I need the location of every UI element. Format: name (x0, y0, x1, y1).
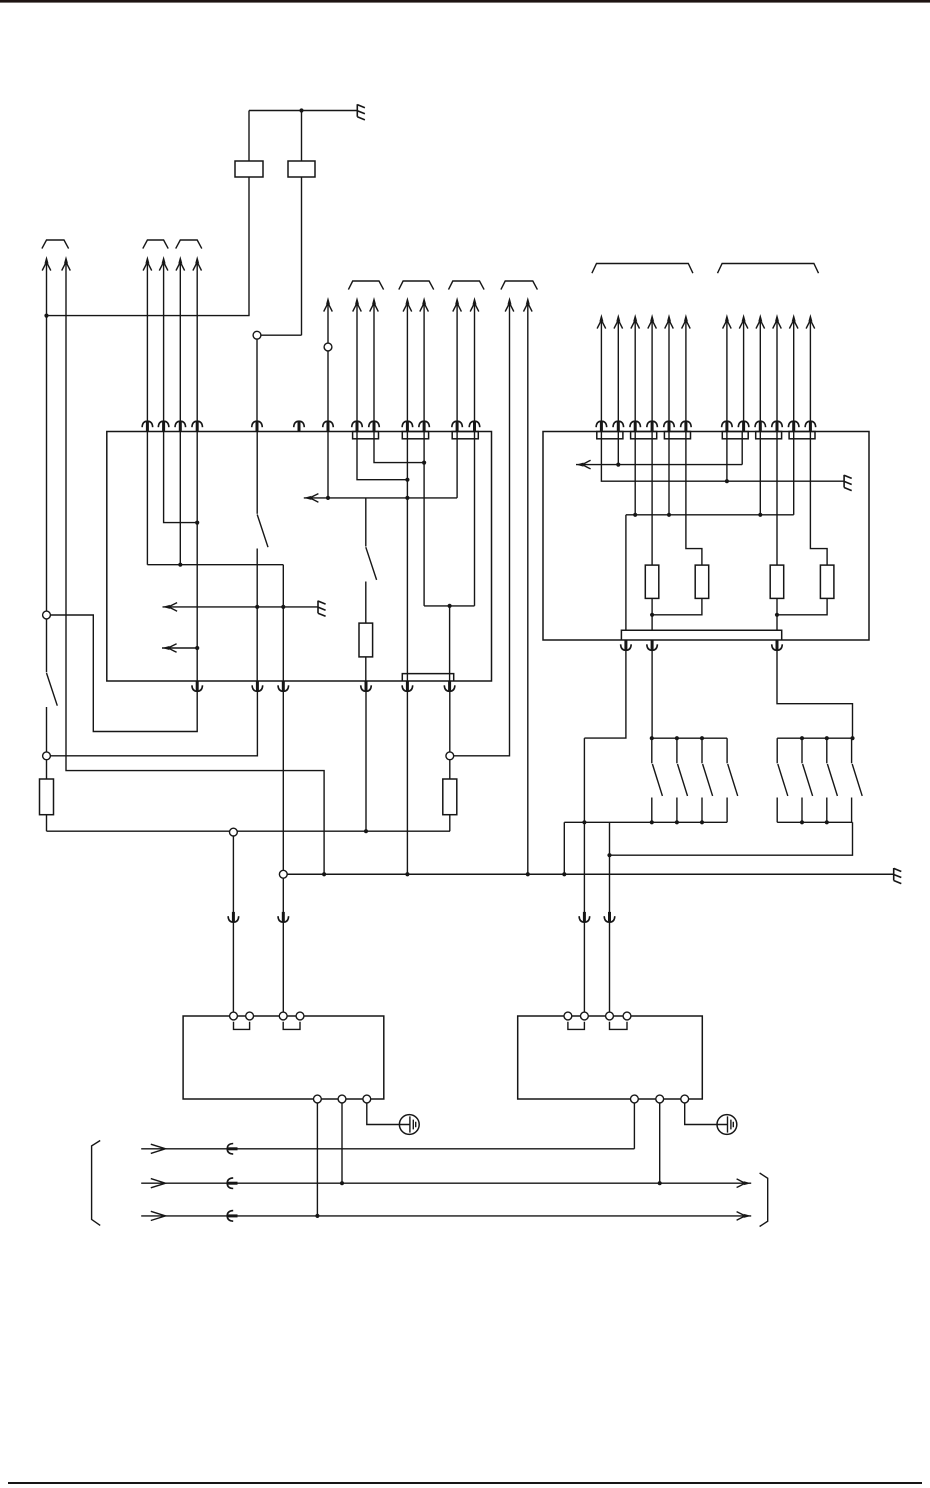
junction dot (255, 605, 259, 609)
pin (444, 681, 455, 691)
junction dot (850, 736, 854, 740)
arrowhead R3 (631, 314, 640, 329)
arrow wire 1 (to switch column) (46, 262, 48, 611)
junction dot (650, 736, 654, 740)
arrow wire R8 (743, 320, 745, 432)
signal arrow line 3 (304, 497, 457, 499)
terminal circle (581, 1012, 589, 1020)
contact 1a lower stub (651, 798, 653, 823)
wire v424 (423, 432, 425, 606)
terminal circle (296, 1012, 304, 1020)
resistor R1 (645, 565, 659, 598)
wire circle to L2 (341, 1103, 343, 1183)
junction dot (758, 513, 762, 517)
relay group 1 bottom bus (564, 821, 727, 823)
junction dot (448, 604, 452, 608)
resistor R2 (695, 565, 709, 598)
pin (647, 640, 658, 650)
arrowhead left (162, 644, 177, 653)
connector housing CN-J (789, 432, 815, 439)
contact 2a stub (776, 738, 778, 763)
contact 2c lower stub (826, 798, 828, 823)
terminal circle (623, 1012, 631, 1020)
pin (738, 421, 749, 431)
junction dot (667, 513, 671, 517)
connector circle K7 (279, 870, 287, 878)
wire v283 to K7 (282, 681, 284, 870)
arrowhead 10 (403, 297, 412, 312)
wire v163 (164, 432, 198, 523)
inline connector pin (278, 912, 289, 922)
link clip (283, 1022, 300, 1030)
contact 2b blade (803, 764, 813, 796)
arrowhead right on L1 (151, 1144, 166, 1153)
arrow wire 11 (423, 303, 425, 432)
junction dot (405, 872, 409, 876)
pin (613, 421, 624, 431)
junction dot (178, 563, 182, 567)
wire v635 (634, 432, 636, 515)
contact 2b stub (801, 738, 803, 763)
wire circle to L2 right (659, 1103, 661, 1183)
junction dot (562, 872, 566, 876)
pin (192, 421, 203, 431)
junction dot (195, 646, 199, 650)
wire F2 bottom lead (301, 177, 303, 335)
connector circle K1 (253, 331, 261, 339)
arrowhead 1 (42, 256, 51, 271)
wire v760 (759, 432, 761, 515)
junction dot (322, 872, 326, 876)
arrow wire 12 (456, 303, 458, 432)
junction dot (675, 736, 679, 740)
bus h514.8 (626, 514, 794, 516)
fuse F2 (288, 161, 315, 177)
junction dot (616, 463, 620, 467)
junction dot (405, 496, 409, 500)
harness bracket over arrows 3-4 (143, 240, 168, 249)
junction dot (340, 1181, 344, 1185)
arrowhead R6 (682, 314, 691, 329)
wire group 2 drain (610, 822, 853, 855)
pin (369, 421, 380, 431)
resistor R4 (820, 565, 834, 598)
arrowhead 8 (353, 297, 362, 312)
pin (278, 681, 289, 691)
connector housing CN-I (756, 432, 782, 439)
contact 1a stub (651, 738, 653, 763)
inline connector pin (228, 912, 239, 922)
wire K4 to fuse F3 (46, 760, 48, 779)
arrow wire R1 (600, 320, 602, 432)
pin (bottom edge) (621, 640, 632, 650)
field wiring bracket right (760, 1173, 768, 1227)
wire circle to L3 (316, 1103, 318, 1216)
junction dot (700, 820, 704, 824)
wire K6 down to compressor connector (232, 836, 234, 1012)
contact 2b lower stub (801, 798, 803, 823)
terminal circle (bottom) (631, 1095, 639, 1103)
arrow wire R11 (793, 320, 795, 432)
control box U1 outline (107, 432, 492, 682)
arrowhead 15 (524, 297, 533, 312)
contact 1c stub (701, 738, 703, 763)
terminal circle (656, 1095, 664, 1103)
harness bracket over arrows 14-15 (501, 281, 538, 290)
junction dot (700, 736, 704, 740)
terminal circle (681, 1095, 689, 1103)
contact 1a blade (652, 764, 662, 796)
harness bracket right group 1 (592, 264, 693, 274)
link clip (610, 1022, 628, 1030)
arrowhead 7 (324, 297, 333, 312)
arrow wire 5 (179, 262, 181, 432)
inline connector on L3 (227, 1211, 237, 1222)
arrowhead 6 (193, 256, 202, 271)
pin (596, 421, 607, 431)
junction dot (607, 853, 611, 857)
pin (664, 421, 675, 431)
phase line L3 (141, 1215, 751, 1217)
wire h564.7 (147, 564, 283, 566)
wire v609.5 long drop (609, 822, 611, 1012)
contact 1d stub (726, 738, 728, 763)
arrowhead left (163, 603, 178, 612)
wire v357 (357, 432, 407, 480)
pin (top edge) (142, 421, 153, 431)
arrow wire R2 (617, 320, 619, 432)
wire K3 tap right and down (50, 615, 197, 732)
junction dot (44, 314, 48, 318)
contact 1d lower stub (726, 798, 728, 823)
terminal strip TB1 (621, 630, 781, 640)
power box U2 outline (543, 432, 869, 641)
resistor R5 (359, 623, 373, 657)
arrow wire 14 (to connector K5) (454, 303, 510, 756)
terminal circle (279, 1012, 287, 1020)
harness bracket over arrows 5-6 (176, 240, 202, 249)
arrowhead R4 (648, 314, 657, 329)
connector circle K4 (43, 752, 51, 760)
wire feed to relay group 2 (777, 640, 853, 738)
arrowhead R11 (789, 314, 798, 329)
wire horizontal y=315.6 (47, 315, 250, 317)
arrowhead R5 (665, 314, 674, 329)
wire circle to L1 (633, 1103, 635, 1149)
junction dot (775, 613, 779, 617)
junction dot (675, 820, 679, 824)
connector housing CN-F (631, 432, 657, 439)
arrowhead 9 (370, 297, 379, 312)
junction dot (364, 829, 368, 833)
relay group 2 bottom bus (777, 821, 852, 823)
terminal circle (338, 1095, 346, 1103)
switch SW3 upper wire (365, 498, 367, 547)
switch SW1 lower wire (46, 707, 48, 752)
switch SW2 lower wire (256, 549, 258, 682)
wire K1 down to CN pin (256, 339, 258, 431)
wire bus drop v625.9 (625, 515, 627, 631)
inline connector pin (604, 912, 615, 922)
pin (681, 421, 692, 431)
junction dot (825, 736, 829, 740)
arrow wire 15 (to earth bus) (527, 303, 529, 874)
arrow wire 3 (146, 262, 148, 432)
arrow wire R4 (651, 320, 653, 432)
arrow wire R10 (776, 320, 778, 432)
junction dot (650, 820, 654, 824)
wire v366 (365, 681, 367, 831)
arrow wire R7 (726, 320, 728, 432)
arrowhead 5 (176, 256, 185, 271)
pin (402, 681, 413, 691)
junction dot (526, 872, 530, 876)
arrow wire 2 (long drop) (66, 262, 324, 874)
contact 1c blade (703, 764, 713, 796)
harness bracket over arrows 12-13 (449, 281, 485, 290)
pin (722, 421, 733, 431)
compressor box M2 outline (518, 1016, 703, 1099)
wire F2 top lead (301, 111, 303, 162)
arrowhead R1 (597, 314, 606, 329)
arrowhead R2 (614, 314, 623, 329)
junction dot (195, 521, 199, 525)
junction dot (299, 108, 303, 112)
fuse F4 (443, 779, 457, 815)
connector housing CN-G (664, 432, 690, 439)
wire R4 bottom lead (777, 598, 827, 614)
pin (352, 421, 363, 431)
wire top horizontal to ground (249, 110, 357, 112)
arrow wire R3 (634, 320, 636, 432)
pin (402, 421, 413, 431)
fuse F1 (235, 161, 263, 177)
connector circle K6 (230, 828, 238, 836)
wire v374 (374, 432, 424, 463)
harness bracket over arrows 1-2 (42, 240, 69, 249)
contact 1c lower stub (701, 798, 703, 823)
arrowhead R8 (739, 314, 748, 329)
junction dot (582, 820, 586, 824)
wire h831 (47, 830, 451, 832)
arrow wire R12 (809, 320, 811, 432)
wire v564.3 to earth bus (563, 822, 565, 874)
arrow wire 6 (196, 262, 198, 432)
contact 1b lower stub (676, 798, 678, 823)
arrowhead 4 (159, 256, 168, 271)
inline connector pin (579, 912, 590, 922)
pin (469, 421, 480, 431)
terminal circle (230, 1012, 238, 1020)
wire K5 to fuse F4 (449, 760, 451, 779)
arrow wire 13 (474, 303, 476, 432)
wire horizontal y=335.2 (261, 334, 302, 336)
arrowhead R12 (806, 314, 815, 329)
pin (252, 421, 263, 431)
wire F1 top lead (248, 111, 250, 162)
junction dot (326, 496, 330, 500)
arrowhead R7 (723, 314, 732, 329)
pin (805, 421, 816, 431)
connector housing CN-D (bottom) (402, 674, 453, 681)
pin (772, 421, 783, 431)
wire v328 (327, 432, 329, 498)
junction dot (633, 513, 637, 517)
arrowhead R9 (756, 314, 765, 329)
wire v474 (474, 432, 476, 606)
wire R3 bottom lead (776, 598, 778, 630)
harness bracket over arrows 10-11 (399, 281, 434, 290)
wire v283 (282, 565, 284, 681)
wire v457 (456, 432, 458, 498)
wire pin to K5 (449, 681, 451, 752)
relay group 1 top bus (652, 737, 727, 739)
page bottom rule (8, 1482, 922, 1484)
wire v197 (196, 432, 198, 682)
wire R1 bottom lead (651, 598, 653, 630)
arrowhead right on L2 (151, 1179, 166, 1188)
switch SW1 upper wire (46, 619, 48, 672)
contact 1b stub (676, 738, 678, 763)
arrowhead at L3 right end (737, 1212, 752, 1221)
arrowhead 11 (420, 297, 429, 312)
link clip (568, 1022, 585, 1030)
arrowhead 2 (62, 256, 71, 271)
contact 2d lower stub (851, 798, 853, 823)
junction dot (650, 613, 654, 617)
contact 2c stub (826, 738, 828, 763)
contact 2a lower stub (776, 798, 778, 823)
wire v407 below box (406, 681, 408, 874)
chassis ground G2 (318, 601, 326, 617)
wire F1 bottom lead (248, 177, 250, 316)
junction dot (658, 1181, 662, 1185)
switch SW2 upper wire (256, 432, 258, 514)
contact 1d blade (728, 764, 738, 796)
arrowhead 14 (505, 297, 514, 312)
wire F3 bottom lead (46, 815, 48, 832)
phase line L2 (141, 1182, 751, 1184)
pin (755, 421, 766, 431)
pin (647, 421, 658, 431)
wire h605.9 (424, 605, 474, 607)
pin (772, 640, 783, 650)
arrow wire R6 (685, 320, 687, 432)
wire v180 (179, 432, 181, 565)
wire R2 bottom lead (652, 598, 702, 614)
wire to PE2 (685, 1103, 717, 1125)
inline connector on L2 (227, 1178, 237, 1189)
protective earth PE2 (717, 1115, 737, 1135)
wire R5 bottom lead (365, 657, 367, 681)
signal arrow line 2 (162, 647, 197, 649)
switch SW3 lower wire (365, 582, 367, 624)
chassis ground G1 (357, 104, 365, 120)
harness bracket over arrows 8-9 (348, 281, 383, 290)
wire v449 (449, 606, 451, 681)
chassis ground G4 (894, 868, 902, 884)
junction dot (405, 478, 409, 482)
contact 2d stub (851, 738, 853, 763)
wire to PE1 (367, 1103, 400, 1125)
wire v147 (146, 432, 148, 565)
contact 2c blade (827, 764, 837, 796)
connector housing CN-A (353, 432, 379, 439)
pin (361, 681, 372, 691)
pin (bottom edge) (192, 681, 203, 691)
arrowhead 13 (470, 297, 479, 312)
pin (630, 421, 641, 431)
junction dot (825, 820, 829, 824)
harness bracket right group 2 (718, 264, 819, 274)
terminal circle (564, 1012, 572, 1020)
pin (175, 421, 186, 431)
arrow wire 4 (163, 262, 165, 432)
connector housing CN-H (722, 432, 748, 439)
pin (419, 421, 430, 431)
arrowhead at L2 right end (737, 1179, 752, 1188)
wire v584.4 long drop (583, 738, 585, 1012)
wire v669 (668, 432, 670, 515)
switch SW1 blade (47, 673, 58, 706)
connector circle K2 (324, 343, 332, 351)
junction dot (800, 820, 804, 824)
pin (252, 681, 263, 691)
relay group 2 top bus (777, 737, 852, 739)
connector circle K5 (446, 752, 454, 760)
page top border bar (0, 0, 930, 3)
arrow wire 10 (406, 303, 408, 432)
connector circle K3 (43, 611, 51, 619)
arrowhead left (576, 460, 591, 469)
wire K4 tap to pin (50, 681, 257, 756)
wire v407 (406, 432, 408, 682)
wire K7 down to compressor connector (282, 878, 284, 1012)
junction dot (725, 479, 729, 483)
earth bus h874.25 (287, 873, 894, 875)
pin (unconnected) (294, 421, 305, 431)
junction dot (281, 605, 285, 609)
arrowhead R10 (773, 314, 782, 329)
arrowhead right on L3 (151, 1211, 166, 1220)
arrow wire 7 (single) (327, 303, 329, 432)
junction dot (422, 461, 426, 465)
arrowhead 12 (453, 297, 462, 312)
wire v652 (651, 432, 653, 566)
compressor box M1 outline (183, 1016, 384, 1099)
fuse F3 (40, 779, 54, 815)
contact 2d blade (852, 764, 862, 796)
arrow wire 8 (356, 303, 358, 432)
wire v685.9 jog (686, 432, 702, 566)
contact 2a blade (778, 764, 788, 796)
arrow wire R5 (668, 320, 670, 432)
arrowhead 3 (143, 256, 152, 271)
terminal circle (606, 1012, 614, 1020)
connector housing CN-C (452, 432, 478, 439)
arrow wire R9 (759, 320, 761, 432)
field wiring bracket left (92, 1141, 101, 1226)
signal arrow line (576, 464, 742, 466)
wire v601 to ground (601, 432, 844, 482)
phase line L1 (141, 1148, 634, 1150)
switch SW3 blade (366, 547, 377, 580)
connector housing CN-B (402, 432, 428, 439)
wire v793 (793, 432, 795, 515)
junction dot (800, 736, 804, 740)
arrow wire 9 (373, 303, 375, 432)
terminal circle (363, 1095, 371, 1103)
